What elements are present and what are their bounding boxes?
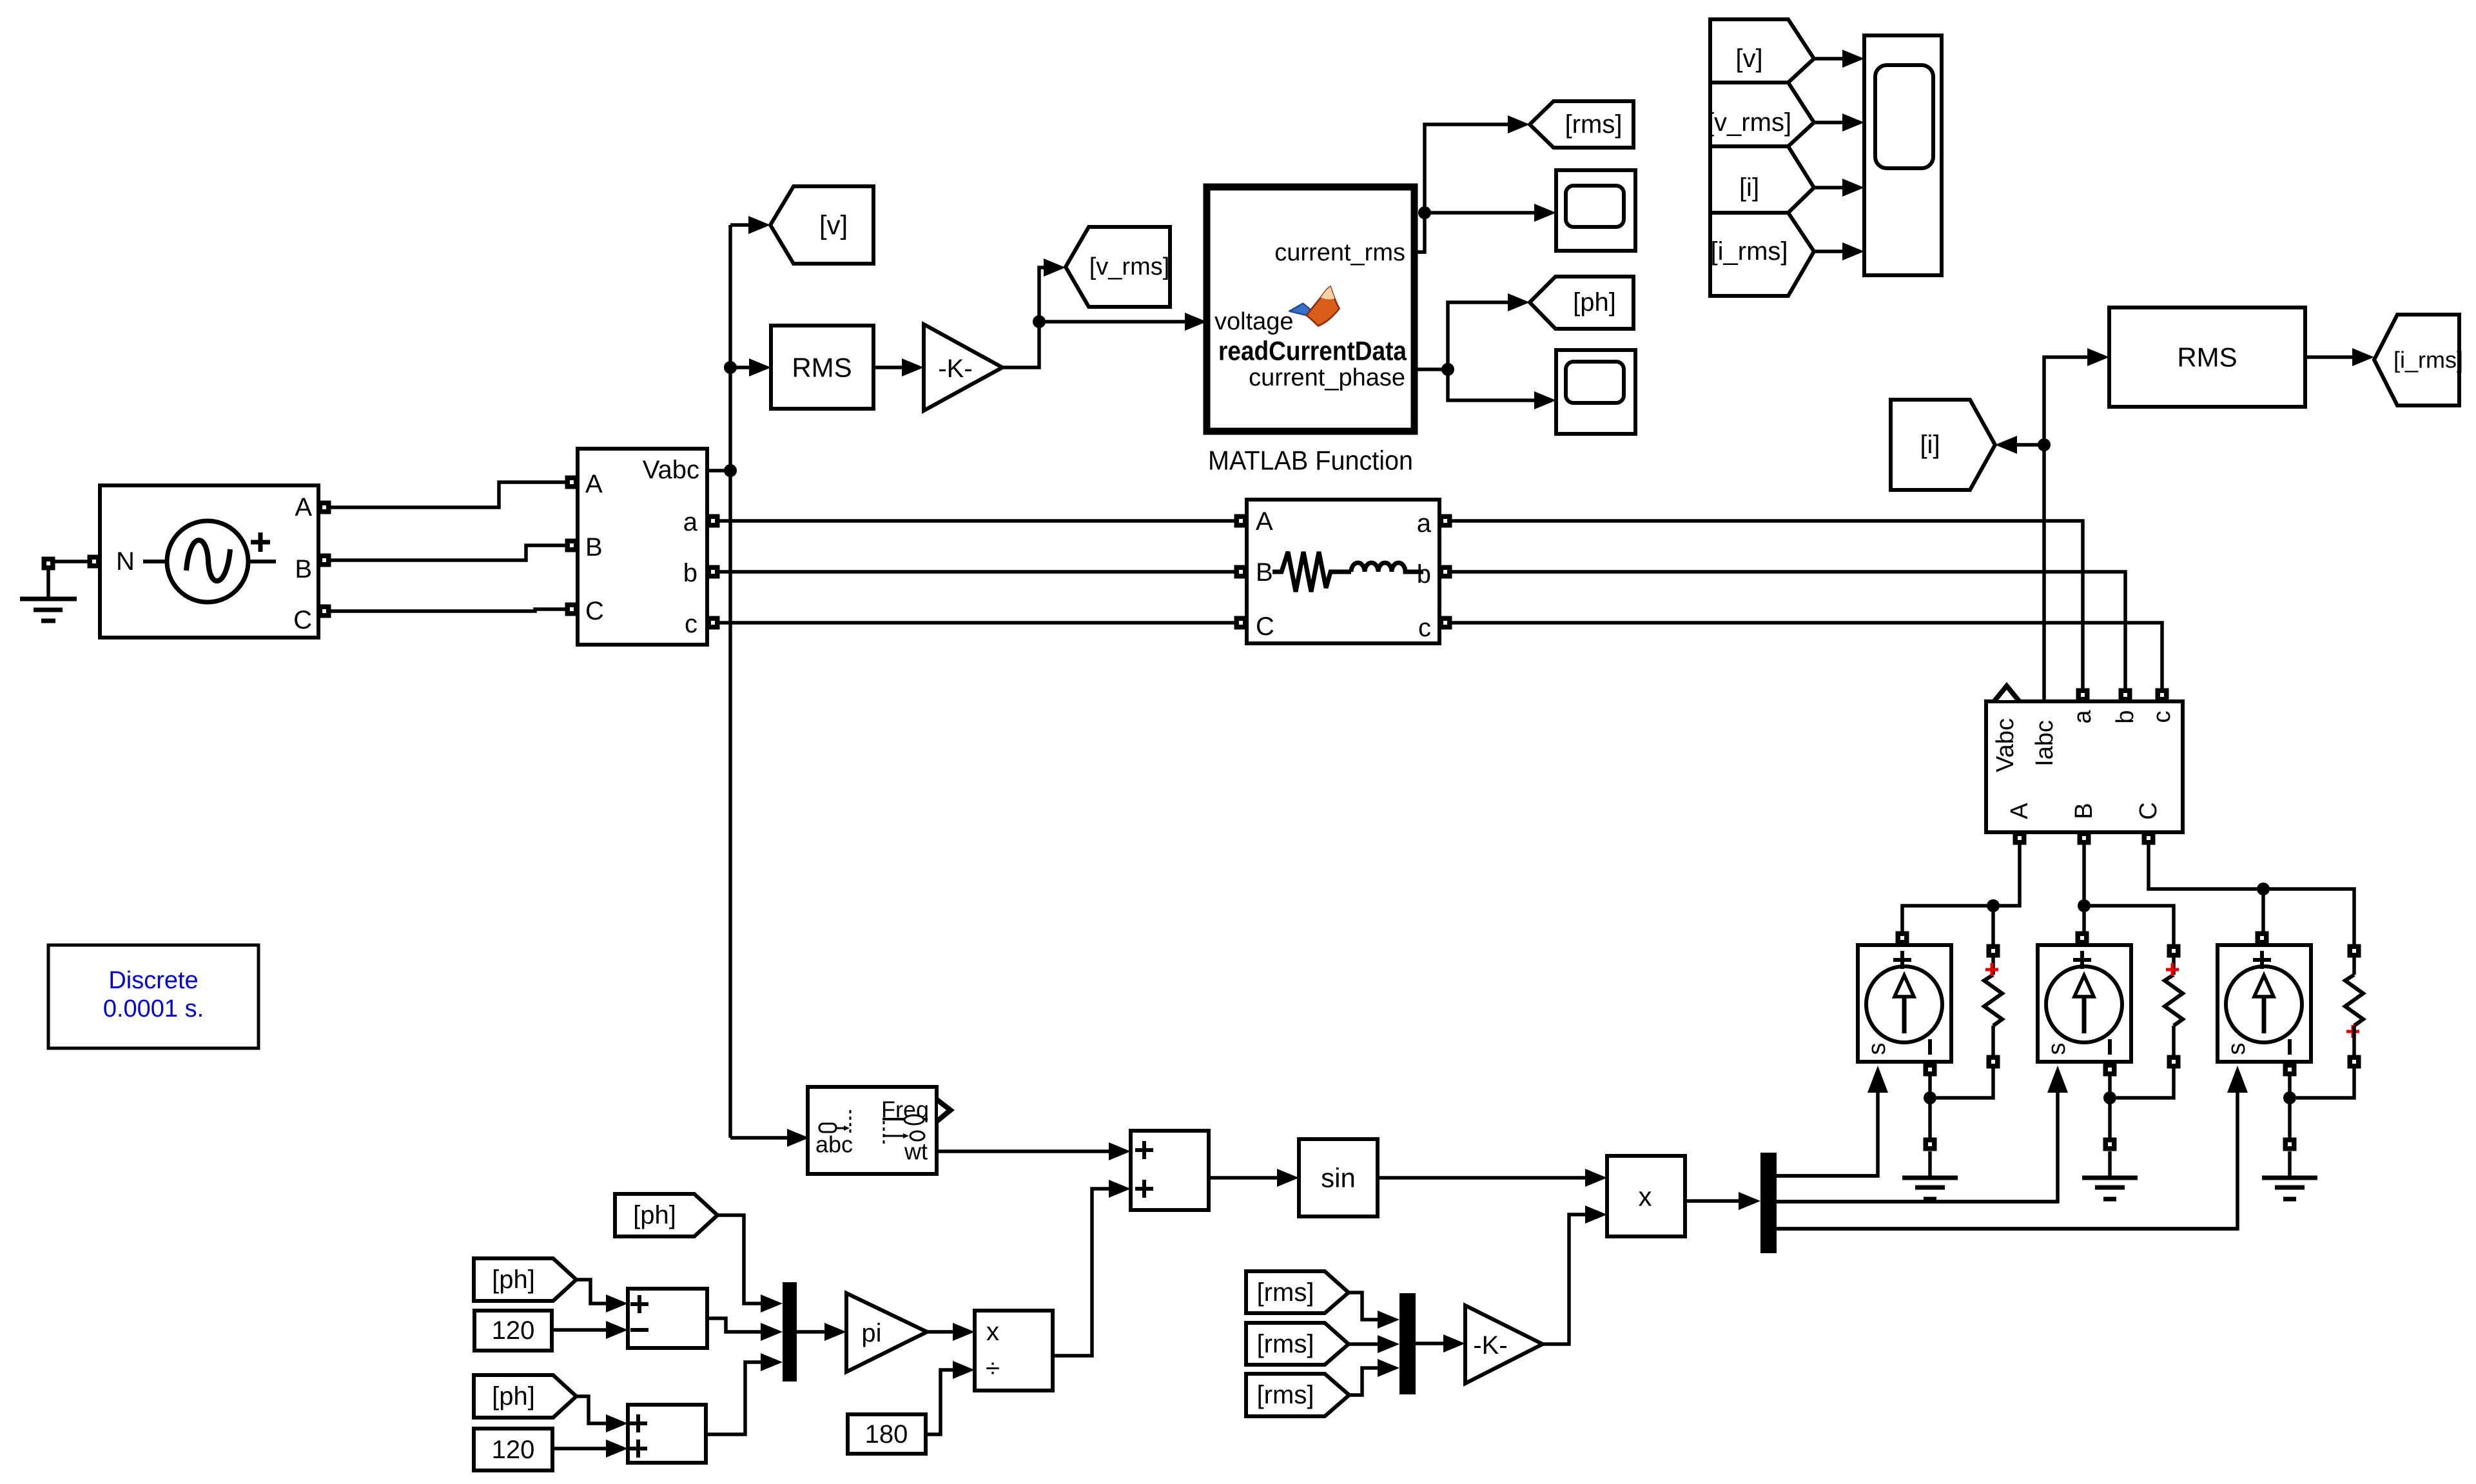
RLC port C	[1234, 616, 1248, 630]
arrow ph1 into mux	[761, 1294, 783, 1313]
scope 1	[1556, 170, 1635, 251]
arrow i into scope	[1842, 179, 1864, 197]
I2 minus port	[2103, 1063, 2117, 1077]
wire control I2	[1777, 1088, 2058, 1202]
arrow into gain2	[1443, 1334, 1465, 1352]
svg-text:C: C	[1256, 612, 1274, 641]
svg-text:B: B	[295, 555, 312, 583]
Goto tag i (mirrored)	[1891, 400, 1995, 490]
source port A	[318, 501, 331, 514]
I3 control arrow	[2227, 1066, 2248, 1093]
wire current_rms to scope1	[1425, 211, 1534, 215]
arrow into sum in1	[1109, 1142, 1131, 1160]
arrow i_rms into scope	[1842, 242, 1864, 260]
source port B	[318, 554, 331, 567]
VI1 port c	[707, 616, 720, 630]
svg-text:[rms]: [rms]	[1257, 1278, 1314, 1307]
wire to Goto v_rms	[1039, 268, 1044, 322]
svg-text:Vabc: Vabc	[643, 456, 699, 484]
I3 minus port	[2283, 1063, 2297, 1077]
svg-text:abc: abc	[815, 1131, 853, 1158]
source plus sign	[251, 532, 270, 552]
junction A-R1	[1987, 899, 2000, 912]
wire mux2 to gain2	[1416, 1342, 1443, 1345]
wire b mid	[719, 570, 1235, 574]
svg-text:s: s	[1864, 1043, 1891, 1055]
arrow ph3 into sumB	[606, 1414, 628, 1432]
arrow into Goto v	[748, 216, 770, 234]
wire VI2 A down	[1902, 844, 2020, 932]
VI2 port c	[2156, 688, 2169, 702]
svg-text:[ph]: [ph]	[633, 1201, 676, 1229]
constant 120 (2)	[474, 1429, 552, 1470]
resistor R1 bottom port	[1987, 1055, 2000, 1069]
svg-text:RMS: RMS	[792, 353, 852, 383]
wire RMS2 out	[2305, 355, 2352, 359]
svg-text:A: A	[2006, 803, 2033, 819]
svg-text:readCurrentData: readCurrentData	[1218, 336, 1407, 366]
wire current_rms out	[1414, 124, 1508, 252]
I3 circle symbol	[2226, 966, 2302, 1042]
svg-text:A: A	[1256, 507, 1273, 536]
wire rms2 to mux2	[1349, 1342, 1378, 1346]
From tag i	[1710, 146, 1814, 213]
sum block A (+-)	[628, 1289, 707, 1348]
svg-text:C: C	[585, 597, 604, 625]
wire current_phase out	[1414, 367, 1448, 371]
wire to ground G2	[1928, 1151, 1932, 1178]
arrow into pi	[824, 1323, 846, 1341]
svg-text:[v]: [v]	[1735, 44, 1762, 73]
wire to PLL	[730, 1136, 787, 1140]
source sine symbol	[167, 521, 248, 602]
svg-text:b: b	[2112, 710, 2139, 723]
three-phase series RLC branch block	[1247, 500, 1439, 643]
arrow into Goto v_rms	[1044, 259, 1066, 277]
arrow rms1 into mux2	[1378, 1311, 1399, 1329]
wire From i_rms to scope	[1814, 249, 1842, 253]
demux	[1760, 1153, 1777, 1253]
wire 180 to product2	[926, 1370, 953, 1434]
svg-text:[rms]: [rms]	[1565, 110, 1623, 139]
svg-text:a: a	[2069, 710, 2096, 724]
arrow ph2 into sumA	[606, 1294, 628, 1313]
RLC resistor symbol	[1272, 552, 1351, 592]
wire I2 minus down	[2108, 1075, 2112, 1144]
svg-text:[v_rms]: [v_rms]	[1089, 253, 1170, 280]
arrow into sum in2	[1109, 1180, 1131, 1198]
wire I1 minus down	[1928, 1075, 1932, 1144]
svg-text:current_rms: current_rms	[1274, 239, 1405, 266]
arrow 120b into sumB	[606, 1440, 628, 1458]
PLL icon ovals	[904, 1115, 924, 1124]
arrow into MATLAB voltage	[1185, 313, 1207, 331]
arrow into product in2	[1585, 1206, 1607, 1224]
three-phase source block V1	[100, 485, 318, 638]
product block (x)	[1607, 1156, 1685, 1236]
svg-text:Vabc: Vabc	[1992, 718, 2019, 772]
arrow into RMS1	[749, 358, 771, 376]
svg-text:B: B	[585, 533, 603, 561]
svg-text:C: C	[293, 606, 312, 634]
arrow into RMS2	[2087, 348, 2109, 366]
gain -K- 2	[1465, 1305, 1543, 1383]
resistor R2 top port	[2167, 944, 2181, 958]
ground port G3	[2103, 1138, 2117, 1151]
discrete 3-phase PLL block	[808, 1087, 937, 1174]
wire phase B	[330, 545, 566, 560]
wire 120a to sumA	[552, 1328, 606, 1332]
wire R1 bottom stub	[1991, 1026, 1995, 1056]
svg-text:current_phase: current_phase	[1249, 364, 1405, 391]
ground G3	[2082, 1178, 2138, 1199]
arrow into product2 in1	[953, 1323, 975, 1341]
Goto tag i_rms	[2374, 315, 2459, 405]
junction current_rms	[1418, 206, 1431, 219]
resistor R1 plus mark	[1985, 963, 1998, 976]
VI1 port a	[707, 514, 720, 528]
junction B-R2	[2078, 899, 2091, 912]
I1 control arrow	[1867, 1066, 1888, 1093]
sin block	[1299, 1139, 1378, 1216]
resistor R2	[2165, 975, 2183, 1026]
wire RMS1 to gain1	[873, 366, 902, 369]
wire Vabc vertical	[728, 225, 732, 1138]
wire control I1	[1777, 1088, 1878, 1176]
wire a mid	[719, 519, 1235, 523]
svg-text:a: a	[683, 508, 698, 536]
wire R1 top stub	[1991, 957, 1995, 975]
wire From v_rms to scope	[1814, 121, 1842, 124]
wire From v to scope	[1814, 57, 1842, 61]
arrow into Goto i_rms	[2352, 348, 2374, 366]
wire product to demux	[1685, 1199, 1739, 1203]
arrow into scope2	[1534, 391, 1556, 409]
svg-text:b: b	[683, 559, 697, 587]
From tag v_rms	[1710, 83, 1814, 146]
resistor R2 plus mark	[2166, 963, 2179, 976]
svg-text:÷: ÷	[986, 1354, 1000, 1383]
svg-text:MATLAB Function: MATLAB Function	[1208, 445, 1413, 476]
I1 circle symbol	[1866, 966, 1942, 1042]
junction I1 minus	[1924, 1091, 1936, 1104]
MATLAB logo	[1289, 287, 1339, 326]
wire sumA to mux	[707, 1318, 761, 1332]
I1 plus label	[1893, 951, 1911, 969]
From tag ph 2	[474, 1258, 576, 1301]
wire phase A	[330, 482, 566, 507]
RLC port B	[1234, 565, 1248, 579]
junction C-R3	[2257, 883, 2270, 895]
wire ph2 to sumA	[576, 1280, 606, 1303]
wire to R1 top	[1991, 906, 1995, 945]
wire a long	[1451, 521, 2083, 690]
I1 plus port	[1896, 932, 1909, 945]
Discrete sample-time box	[48, 945, 258, 1048]
controlled current source I3	[2218, 945, 2311, 1062]
ground G1 (source neutral)	[42, 557, 55, 571]
RLC port A	[1234, 514, 1248, 528]
svg-text:[i_rms]: [i_rms]	[2393, 347, 2463, 373]
wire to Goto ph	[1448, 302, 1508, 369]
junction current_phase	[1441, 363, 1454, 376]
svg-text:[v_rms]: [v_rms]	[1707, 108, 1791, 137]
svg-text:[i]: [i]	[1739, 173, 1759, 202]
wire I3 minus down	[2288, 1075, 2292, 1144]
wire b long	[1451, 572, 2125, 690]
wire phase C	[330, 609, 566, 611]
V-I measurement block 2 (rotated)	[1986, 701, 2183, 832]
Goto tag ph	[1530, 277, 1633, 329]
wire rms1 to mux2	[1349, 1293, 1378, 1320]
I2 control arrow	[2047, 1066, 2068, 1093]
svg-text:120: 120	[492, 1436, 535, 1464]
scope 2	[1556, 350, 1635, 434]
svg-text:B: B	[2071, 803, 2098, 819]
wire R1 to I1 minus	[1936, 1068, 1993, 1098]
svg-text:Iabc: Iabc	[2031, 720, 2058, 766]
svg-text:wt: wt	[904, 1138, 928, 1165]
controlled current source I2	[2038, 945, 2131, 1062]
three-phase V-I measurement block	[578, 449, 707, 645]
RLC port a	[1439, 514, 1452, 528]
controlled current source I1	[1858, 945, 1951, 1062]
svg-text:RMS: RMS	[2177, 342, 2237, 373]
wire to R2 top	[2084, 906, 2174, 945]
svg-text:x: x	[986, 1318, 999, 1346]
junction Vabc	[724, 464, 737, 477]
wire R2 bottom stub	[2172, 1026, 2176, 1056]
wire R3 bottom stub	[2352, 1026, 2356, 1056]
From tag rms 2	[1246, 1323, 1349, 1365]
wire demux out3	[1777, 1227, 2237, 1231]
wire ph3 to sumB	[576, 1396, 606, 1423]
sum block B (++)	[628, 1405, 706, 1463]
VI1 port C	[565, 603, 579, 616]
scope 3 (4-input)	[1864, 35, 1942, 275]
wire Vabc stub	[707, 469, 730, 473]
resistor R1	[1984, 975, 2002, 1026]
svg-text:[rms]: [rms]	[1257, 1381, 1314, 1409]
wire to Goto v	[730, 223, 748, 227]
svg-text:B: B	[1256, 558, 1273, 587]
arrow rms2 into mux2	[1378, 1335, 1399, 1353]
From tag rms 3	[1246, 1374, 1349, 1416]
sum block (wt+phase)	[1131, 1131, 1209, 1210]
wire to RMS1	[730, 366, 749, 369]
wire sumB to mux	[706, 1362, 761, 1434]
arrow rms3 into mux2	[1378, 1359, 1399, 1377]
wire ph1 to mux	[717, 1215, 761, 1303]
arrow into Goto i	[1995, 436, 2017, 454]
wire c long	[1451, 623, 2162, 690]
RLC port c	[1439, 616, 1452, 630]
arrow into gain1	[902, 358, 924, 376]
wire rms3 to mux2	[1349, 1368, 1378, 1395]
wire sum to sin	[1210, 1176, 1277, 1180]
arrow into product in1	[1585, 1169, 1607, 1187]
PLL Freq output chevron	[938, 1097, 955, 1124]
RLC inductor symbol	[1351, 563, 1423, 572]
VI1 port B	[565, 539, 579, 552]
wire From i to scope	[1814, 186, 1842, 190]
source port C	[318, 605, 331, 618]
wire sin to product	[1378, 1176, 1585, 1180]
svg-text:A: A	[295, 493, 312, 522]
svg-text:a: a	[1417, 509, 1432, 538]
wire mux to pi	[797, 1330, 824, 1334]
wire gain2 to product in2	[1543, 1215, 1585, 1344]
svg-text:[i_rms]: [i_rms]	[1711, 237, 1788, 266]
arrow v into scope	[1842, 50, 1864, 68]
arrow into product2 in2	[953, 1361, 975, 1379]
arrow into PLL	[787, 1129, 809, 1147]
VI2 port a	[2076, 688, 2090, 702]
svg-text:-K-: -K-	[938, 355, 972, 383]
From tag ph 3	[474, 1375, 576, 1418]
wire gain1 out	[1002, 322, 1039, 367]
wire VI2 B down	[2082, 844, 2086, 932]
I1 minus label	[1928, 1039, 1932, 1055]
wire to ground G4	[2288, 1151, 2292, 1178]
RMS block 1	[771, 326, 873, 409]
I3 plus port	[2256, 932, 2269, 945]
wire R2 top stub	[2172, 957, 2176, 975]
arrow sumA into mux	[761, 1323, 783, 1341]
wire to ground G3	[2108, 1151, 2112, 1178]
svg-text:[i]: [i]	[1920, 431, 1940, 459]
svg-text:c: c	[1418, 614, 1431, 642]
gain -K- 1	[924, 324, 1002, 411]
svg-text:[ph]: [ph]	[492, 1382, 535, 1411]
arrow into Goto ph	[1508, 293, 1530, 311]
wire R3 top stub	[2352, 957, 2356, 975]
svg-text:c: c	[685, 610, 697, 638]
ground port G4	[2283, 1138, 2297, 1151]
VI2 Vabc output chevron	[1992, 682, 2022, 700]
resistor R3 plus mark	[2346, 1025, 2359, 1038]
source port N	[88, 555, 101, 569]
svg-text:C: C	[2135, 802, 2162, 819]
VI2 port A	[2013, 832, 2027, 845]
Goto tag v_rms	[1066, 227, 1170, 307]
VI1 port A	[565, 476, 579, 489]
wire demux out2	[1777, 1200, 2058, 1204]
wire pi to product2	[927, 1330, 953, 1334]
wire ground to N	[54, 560, 88, 563]
svg-text:0.0001 s.: 0.0001 s.	[103, 995, 204, 1022]
arrow v_rms into scope	[1842, 113, 1864, 132]
From tag i_rms	[1710, 213, 1814, 296]
wire R3 to I3 minus	[2296, 1068, 2354, 1098]
wire Iabc vertical	[2042, 445, 2046, 701]
svg-text:A: A	[585, 470, 603, 498]
junction I2 minus	[2103, 1091, 2116, 1104]
MATLAB Function block	[1207, 187, 1414, 431]
gain pi	[846, 1293, 927, 1372]
wire 120b to sumB	[552, 1447, 606, 1450]
arrow 120a into sumA	[606, 1321, 628, 1339]
junction Iabc	[2038, 438, 2051, 451]
constant 180	[848, 1414, 926, 1454]
I2 plus port	[2076, 932, 2089, 945]
product block (x/)	[975, 1311, 1053, 1391]
RLC port b	[1439, 565, 1452, 579]
wire to scope2	[1448, 369, 1534, 400]
I3 plus label	[2253, 951, 2271, 969]
wire Iabc to RMS2	[2044, 357, 2087, 445]
svg-text:Discrete: Discrete	[108, 967, 198, 994]
I1 minus port	[1924, 1063, 1937, 1077]
arrow into demux	[1739, 1192, 1760, 1210]
arrow into scope1	[1534, 204, 1556, 222]
ground G4	[2262, 1178, 2317, 1199]
wire to MATLAB voltage	[1039, 320, 1185, 324]
wire c mid	[719, 621, 1235, 625]
svg-text:[rms]: [rms]	[1257, 1330, 1314, 1358]
VI1 port b	[707, 565, 720, 579]
junction Vabc-RMS	[724, 361, 737, 374]
I2 minus label	[2108, 1039, 2112, 1055]
Goto tag rms	[1530, 101, 1633, 148]
arrow into sin	[1277, 1169, 1299, 1187]
wire product2 to sum in2	[1053, 1189, 1109, 1356]
arrow into Goto rms	[1508, 115, 1530, 133]
svg-text:N: N	[116, 547, 135, 576]
wire control I3	[1777, 1088, 2237, 1229]
wire to Goto i	[2016, 443, 2044, 447]
arrow sumB into mux	[761, 1353, 783, 1371]
wire R2 to I2 minus	[2116, 1068, 2174, 1098]
svg-text:voltage: voltage	[1214, 308, 1294, 335]
Goto tag v	[770, 186, 873, 264]
svg-text:s: s	[2223, 1043, 2250, 1055]
constant 120 (1)	[474, 1311, 552, 1351]
resistor R3 bottom port	[2348, 1055, 2361, 1069]
junction I3 minus	[2283, 1091, 2296, 1104]
From tag rms 1	[1246, 1271, 1349, 1313]
svg-text:sin: sin	[1321, 1163, 1356, 1193]
wire wt to sum	[937, 1149, 1109, 1153]
PLL icon	[819, 1124, 836, 1132]
svg-text:x: x	[1639, 1182, 1652, 1212]
mux (phases)	[783, 1282, 797, 1381]
svg-text:[v]: [v]	[819, 210, 848, 240]
wire to source3 plus	[2261, 889, 2265, 932]
mux (rms)	[1399, 1293, 1416, 1394]
RMS block 2	[2109, 308, 2305, 407]
wire demux out1	[1777, 1174, 1878, 1178]
svg-text:[ph]: [ph]	[1573, 288, 1616, 317]
From tag ph 1	[615, 1194, 717, 1236]
VI2 port B	[2078, 832, 2091, 845]
svg-text:pi: pi	[861, 1319, 881, 1347]
resistor R3	[2345, 975, 2363, 1026]
svg-text:[ph]: [ph]	[492, 1265, 535, 1294]
junction v_rms	[1033, 315, 1046, 328]
wire VI2 C down	[2149, 844, 2354, 945]
ground port G2	[1924, 1138, 1937, 1151]
svg-text:-K-: -K-	[1473, 1331, 1507, 1360]
resistor R1 top port	[1987, 944, 2000, 958]
From tag v	[1710, 19, 1814, 83]
resistor R3 top port	[2348, 944, 2361, 958]
ground G2	[1902, 1178, 1958, 1199]
VI2 port C	[2142, 832, 2156, 845]
I2 circle symbol	[2046, 966, 2122, 1042]
resistor R2 bottom port	[2167, 1055, 2181, 1069]
svg-text:s: s	[2043, 1043, 2071, 1055]
